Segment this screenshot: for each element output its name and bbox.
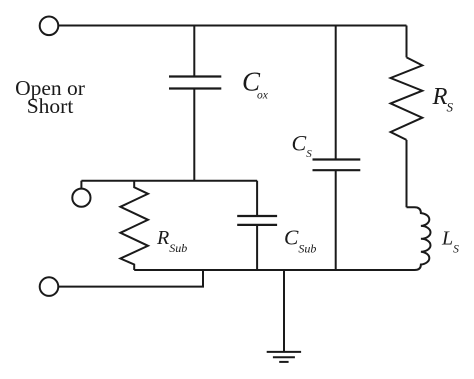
wire: Cs bottom to bottom rail xyxy=(335,170,337,270)
capacitor Csub xyxy=(237,216,277,225)
ground symbol xyxy=(267,352,301,362)
wire: right branch top (rail corner down to Rs) xyxy=(406,26,408,58)
terminal T2 (middle-left open circle) xyxy=(72,189,90,207)
wire: Cox top branch xyxy=(193,26,195,77)
wire: Csub branch from box top line xyxy=(256,181,258,216)
wire: top rail from T1 to right branch xyxy=(58,25,406,27)
svg-text:CS: CS xyxy=(292,130,313,159)
wire: Rs bottom to Ls top xyxy=(406,140,408,207)
svg-text:Short: Short xyxy=(27,94,74,118)
wire: Cox bottom to substrate-box top line xyxy=(193,89,195,181)
inductor Ls xyxy=(407,207,431,270)
wire: Csub bottom to bottom rail xyxy=(256,225,258,270)
resistor Rsub xyxy=(120,181,148,270)
capacitor Cox xyxy=(169,77,221,89)
wire: Cs top branch xyxy=(335,26,337,160)
ground stem xyxy=(283,270,285,351)
svg-text:LS: LS xyxy=(441,227,459,255)
svg-text:RSub: RSub xyxy=(156,227,187,255)
svg-text:Cox: Cox xyxy=(242,67,269,102)
wire: T2 stub up to box top line xyxy=(80,181,82,189)
svg-text:CSub: CSub xyxy=(284,225,316,255)
svg-text:RS: RS xyxy=(432,83,454,115)
wire: substrate box top line xyxy=(81,180,257,182)
terminal T3 (bottom-left open circle) xyxy=(40,277,59,296)
capacitor Cs xyxy=(313,160,361,171)
resistor Rs xyxy=(391,57,423,139)
wire: T3 lead to bottom rail xyxy=(58,270,203,287)
wire: bottom rail xyxy=(134,269,412,271)
terminal T1 (top-left open circle) xyxy=(40,17,59,36)
